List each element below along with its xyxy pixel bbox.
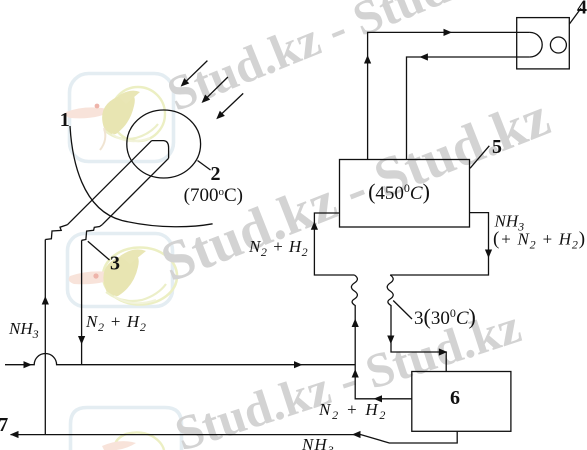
svg-text:3(300C): 3(300C) — [414, 304, 476, 329]
label line 3(30C) — [393, 301, 412, 320]
arrowhead from box6 left — [374, 395, 383, 402]
label line 2 — [198, 161, 211, 171]
arrowhead solar S3 — [214, 111, 225, 122]
svg-text:NH3: NH3 — [8, 319, 39, 341]
arrowhead recycle up 2 — [352, 369, 359, 378]
arrowhead manifold up — [311, 221, 318, 230]
svg-text:(700oC): (700oC) — [184, 185, 243, 206]
svg-text:5: 5 — [492, 136, 502, 158]
mirror arc 1 — [70, 126, 213, 227]
tube left wall wire — [67, 141, 151, 225]
tube right wall wire — [102, 158, 168, 224]
unit 4 U-bend — [530, 32, 542, 57]
arrowhead riser up — [364, 55, 371, 64]
arrowhead solar S1 — [178, 78, 189, 89]
svg-text:N2 + H2: N2 + H2 — [318, 400, 387, 422]
svg-text:(+ N2 + H2): (+ N2 + H2) — [493, 229, 586, 252]
unit 4 box — [517, 18, 570, 69]
solar arrow S1 — [184, 61, 208, 84]
product bottom wire — [11, 431, 458, 443]
svg-text:3: 3 — [110, 253, 120, 275]
zigzag connector right — [82, 225, 103, 241]
arrowhead NH3 riser up — [42, 296, 49, 305]
riser to unit 4 — [368, 32, 530, 159]
svg-text:6: 6 — [450, 387, 460, 409]
furnace circle 2 — [127, 110, 201, 178]
arrowhead cooler down — [387, 336, 394, 345]
label line 5 — [470, 146, 489, 169]
arrowhead to unit4 right — [444, 29, 453, 36]
svg-text:N2 + H2: N2 + H2 — [85, 312, 147, 334]
arrowhead bottom left mid — [352, 431, 361, 438]
arrowhead feed right 1 — [24, 361, 33, 368]
arrowhead into box6 right — [439, 348, 448, 355]
zigzag connector left — [45, 225, 67, 240]
solar arrow S2 — [204, 77, 228, 100]
N2+H2 drop wire VL2 — [81, 240, 83, 364]
reactor 5 box — [340, 160, 470, 228]
arrowhead manifold down — [485, 250, 492, 259]
feed wire with hop — [5, 354, 355, 365]
tube cap inside furnace — [152, 141, 169, 159]
label line 4 — [569, 8, 581, 24]
return from unit 4 — [407, 57, 530, 160]
reactor loop manifold — [314, 213, 354, 275]
arrowhead feed right 2 — [294, 361, 303, 368]
svg-text:N2 + H2: N2 + H2 — [248, 237, 308, 259]
cooler wire B with squiggle — [387, 275, 446, 372]
watermark logo top-left — [66, 74, 174, 162]
solar arrow S3 — [219, 93, 243, 116]
NH3 riser wire VL1 — [44, 240, 46, 435]
unit 4 circle — [550, 37, 566, 53]
label line 3 — [88, 241, 110, 260]
arrowhead return left — [419, 53, 428, 60]
recycle wire A with squiggle — [351, 275, 412, 399]
arrowhead N2H2 drop down — [78, 336, 85, 345]
svg-text:Stud.kz - Stud.: Stud.kz - Stud. — [160, 0, 468, 122]
svg-text:(4500C): (4500C) — [368, 179, 430, 204]
svg-text:1: 1 — [60, 109, 70, 131]
svg-text:2: 2 — [211, 163, 221, 185]
svg-text:7: 7 — [0, 414, 8, 436]
arrowhead solar S2 — [199, 94, 210, 105]
arrowhead recycle up 1 — [352, 319, 359, 328]
svg-text:4: 4 — [577, 0, 587, 19]
separator 6 box — [412, 372, 511, 432]
svg-text:NH3: NH3 — [301, 435, 335, 450]
watermark logo bottom-left — [71, 408, 182, 450]
arrowhead bottom left far — [10, 431, 19, 438]
watermark logo mid-left — [68, 234, 178, 307]
